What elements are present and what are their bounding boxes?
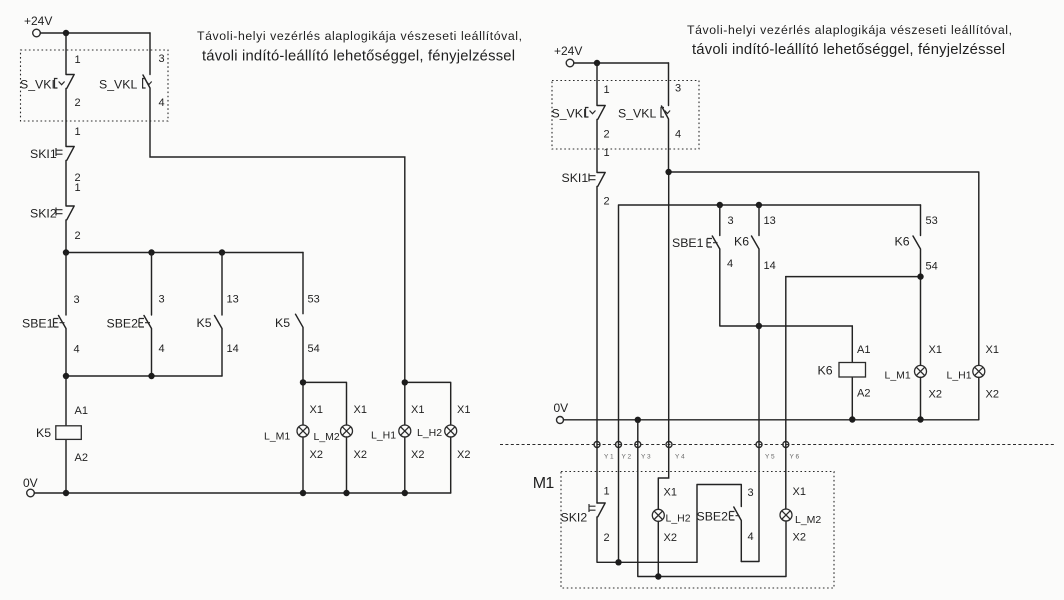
svg-text:2: 2 — [75, 230, 81, 242]
svg-text:Távoli-helyi vezérlés alaplogi: Távoli-helyi vezérlés alaplogikája vésze… — [687, 23, 1012, 37]
svg-text:+24V: +24V — [554, 44, 582, 58]
svg-text:X2: X2 — [929, 389, 942, 401]
svg-text:1: 1 — [75, 182, 81, 194]
svg-text:1: 1 — [604, 84, 610, 96]
svg-text:3: 3 — [74, 294, 80, 306]
svg-text:S_VKL: S_VKL — [99, 78, 137, 92]
svg-text:3: 3 — [159, 294, 165, 306]
svg-text:L_M2: L_M2 — [314, 431, 340, 443]
svg-text:13: 13 — [764, 215, 776, 227]
svg-text:54: 54 — [926, 261, 938, 273]
svg-text:X1: X1 — [411, 404, 424, 416]
svg-text:53: 53 — [926, 215, 938, 227]
svg-text:X1: X1 — [929, 344, 942, 356]
svg-text:X2: X2 — [457, 449, 470, 461]
svg-text:2: 2 — [75, 97, 81, 109]
svg-text:X1: X1 — [986, 344, 999, 356]
svg-text:SBE2: SBE2 — [107, 317, 139, 331]
svg-text:A1: A1 — [857, 344, 870, 356]
svg-text:14: 14 — [227, 343, 239, 355]
svg-text:M 1: M 1 — [533, 475, 555, 492]
svg-text:0V: 0V — [23, 476, 38, 490]
svg-text:14: 14 — [764, 260, 776, 272]
svg-text:2: 2 — [604, 532, 610, 544]
svg-text:3: 3 — [748, 487, 754, 499]
svg-text:1: 1 — [75, 126, 81, 138]
svg-text:K6: K6 — [818, 364, 833, 378]
svg-text:Y 3: Y 3 — [641, 454, 651, 461]
svg-text:4: 4 — [748, 531, 754, 543]
svg-text:2: 2 — [604, 129, 610, 141]
svg-text:54: 54 — [308, 343, 320, 355]
svg-text:S_VKI: S_VKI — [20, 78, 55, 92]
svg-text:X2: X2 — [354, 449, 367, 461]
svg-text:S_VKI: S_VKI — [552, 107, 587, 121]
svg-text:X1: X1 — [354, 404, 367, 416]
svg-text:L_H1: L_H1 — [947, 370, 972, 382]
svg-text:4: 4 — [675, 129, 681, 141]
svg-text:Y 1: Y 1 — [604, 454, 614, 461]
svg-text:3: 3 — [675, 83, 681, 95]
svg-text:X2: X2 — [664, 532, 677, 544]
svg-text:SKI1: SKI1 — [30, 147, 57, 161]
svg-text:SKI2: SKI2 — [561, 511, 588, 525]
svg-text:4: 4 — [159, 97, 165, 109]
svg-text:SBE2: SBE2 — [697, 510, 729, 524]
svg-text:L_H1: L_H1 — [371, 430, 396, 442]
svg-text:K5: K5 — [197, 316, 212, 330]
svg-text:L_H2: L_H2 — [417, 427, 442, 439]
svg-text:4: 4 — [74, 344, 80, 356]
svg-text:1: 1 — [604, 147, 610, 159]
svg-text:S_VKL: S_VKL — [618, 107, 656, 121]
svg-text:SKI1: SKI1 — [562, 171, 589, 185]
svg-text:L_H2: L_H2 — [666, 513, 691, 525]
svg-text:Y 5: Y 5 — [765, 454, 775, 461]
svg-text:Távoli-helyi vezérlés alaplogi: Távoli-helyi vezérlés alaplogikája vésze… — [197, 29, 522, 43]
svg-text:K6: K6 — [734, 235, 749, 249]
svg-text:1: 1 — [604, 486, 610, 498]
svg-text:4: 4 — [727, 258, 733, 270]
svg-text:53: 53 — [308, 294, 320, 306]
svg-text:X1: X1 — [793, 486, 806, 498]
svg-text:13: 13 — [227, 294, 239, 306]
svg-text:X2: X2 — [411, 449, 424, 461]
svg-text:SKI2: SKI2 — [30, 207, 57, 221]
svg-text:0V: 0V — [554, 401, 569, 415]
svg-text:L_M2: L_M2 — [795, 514, 821, 526]
svg-text:távoli indító-leállító lehetős: távoli indító-leállító lehetőséggel, fén… — [202, 49, 515, 65]
svg-text:Y 6: Y 6 — [790, 454, 800, 461]
svg-text:4: 4 — [159, 343, 165, 355]
svg-text:X2: X2 — [986, 389, 999, 401]
svg-text:Y 2: Y 2 — [622, 454, 632, 461]
svg-text:K5: K5 — [275, 316, 290, 330]
svg-text:A2: A2 — [75, 452, 88, 464]
svg-text:X1: X1 — [664, 487, 677, 499]
svg-text:X1: X1 — [457, 404, 470, 416]
svg-text:+24V: +24V — [24, 14, 52, 28]
svg-text:X1: X1 — [310, 404, 323, 416]
svg-text:L_M1: L_M1 — [885, 370, 911, 382]
svg-text:2: 2 — [604, 196, 610, 208]
svg-text:SBE1: SBE1 — [22, 317, 54, 331]
svg-text:3: 3 — [159, 53, 165, 65]
svg-text:távoli indító-leállító lehetős: távoli indító-leállító lehetőséggel, fén… — [692, 42, 1005, 58]
svg-text:K5: K5 — [36, 426, 51, 440]
svg-text:K6: K6 — [895, 235, 910, 249]
svg-text:X2: X2 — [310, 449, 323, 461]
svg-text:L_M1: L_M1 — [264, 431, 290, 443]
svg-text:Y 4: Y 4 — [675, 454, 685, 461]
svg-text:SBE1: SBE1 — [672, 236, 704, 250]
svg-text:1: 1 — [75, 54, 81, 66]
svg-text:A1: A1 — [75, 405, 88, 417]
svg-text:X2: X2 — [793, 532, 806, 544]
svg-text:3: 3 — [728, 215, 734, 227]
svg-text:A2: A2 — [857, 388, 870, 400]
